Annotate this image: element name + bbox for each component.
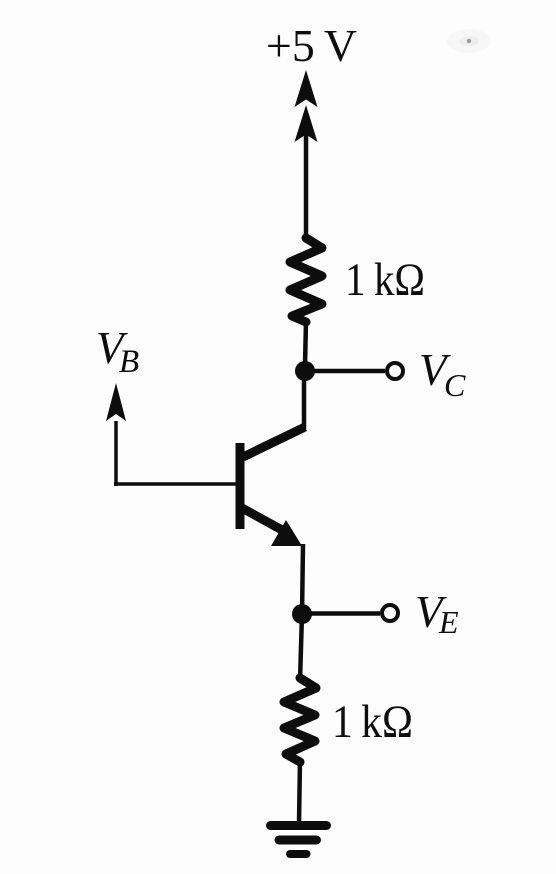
wire: collector vertical [302,379,307,429]
wire: resistor RE to ground [299,760,300,823]
resistor RE zigzag [284,678,316,762]
wire: supply to resistor RC [304,126,309,241]
svg-text:E: E [438,604,459,640]
transistor Q1 emitter stroke [242,508,282,530]
svg-text:C: C [444,367,466,403]
node: collector junction [295,361,315,381]
node: emitter junction [292,604,312,624]
wire: node to VC terminal [305,369,385,374]
svg-text:+5 V: +5 V [266,20,357,71]
ground symbol [271,826,327,855]
svg-text:B: B [119,344,139,380]
wire: emitter down to node [302,544,303,616]
wire: base [114,482,237,486]
terminal VC (open circle) [387,363,403,379]
VB arrow [114,421,118,486]
transistor Q1 base bar [236,443,245,529]
svg-text:1 kΩ: 1 kΩ [332,696,413,748]
transistor Q1 emitter arrowhead [271,520,302,546]
power supply arrow (double arrowhead) [295,70,318,142]
svg-text:1 kΩ: 1 kΩ [345,254,425,306]
terminal VE (open circle) [382,605,398,621]
wire: resistor RC to collector node [305,320,306,366]
transistor Q1 collector stroke [243,427,305,457]
wire: node to VE terminal [302,611,380,616]
wire: node to resistor RE [300,614,302,681]
resistor RC zigzag [290,238,322,322]
